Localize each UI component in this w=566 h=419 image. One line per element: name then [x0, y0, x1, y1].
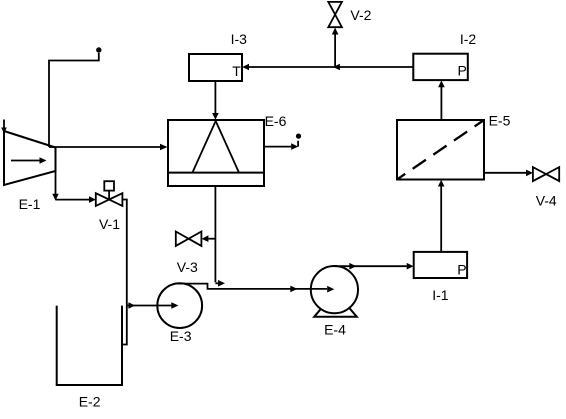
- svg-text:I-2: I-2: [460, 31, 477, 47]
- svg-text:V-1: V-1: [99, 216, 120, 232]
- E-1 inlet arrow: [3, 120, 5, 130]
- wire I-2 to I-3: [249, 66, 413, 68]
- svg-text:T: T: [232, 63, 241, 79]
- compressor E-1: [4, 131, 56, 185]
- membrane unit E-5: [397, 120, 484, 180]
- vent terminal dot: [296, 134, 301, 139]
- wire E-1 outlet to E-6: [49, 146, 161, 148]
- wire E-1 to V-1: [55, 171, 57, 199]
- instrument I-1: [414, 252, 467, 278]
- wire tank branch to pump E-3: [127, 305, 172, 307]
- svg-text:E-5: E-5: [489, 113, 511, 129]
- wire E-6 drop line through V-3 junction: [214, 186, 216, 282]
- wire E-6 vent to atmosphere: [264, 146, 291, 148]
- vent terminal dot: [96, 47, 101, 52]
- E-1 internal flow arrow: [11, 160, 40, 162]
- svg-text:V-3: V-3: [177, 259, 198, 275]
- wire I-1 to E-5: [440, 186, 442, 252]
- tank E-2: [57, 306, 122, 385]
- wire E-3 to E-4: [178, 284, 327, 289]
- instrument I-3: [189, 54, 242, 81]
- svg-text:V-4: V-4: [536, 192, 557, 208]
- svg-text:E-4: E-4: [324, 321, 346, 337]
- wire I-3 to E-6: [214, 81, 216, 114]
- instrument I-2: [413, 54, 468, 80]
- svg-text:P: P: [457, 63, 466, 79]
- valve V-3: [176, 232, 189, 246]
- svg-text:V-2: V-2: [350, 7, 371, 23]
- wire E-5 to V-4: [484, 172, 526, 174]
- valve V-1: [96, 193, 109, 206]
- wire junction to V-2: [334, 34, 336, 67]
- valve V-4: [533, 167, 546, 181]
- wire E-4 to I-1: [334, 265, 406, 267]
- svg-text:E-2: E-2: [79, 394, 101, 410]
- svg-text:E-1: E-1: [19, 196, 41, 212]
- svg-text:P: P: [457, 262, 466, 278]
- svg-text:I-1: I-1: [432, 287, 449, 303]
- wire V-1 to tank E-2: [122, 200, 126, 345]
- svg-text:E-6: E-6: [265, 113, 287, 129]
- column E-6: [168, 120, 264, 186]
- valve V-2: [328, 2, 342, 15]
- svg-text:I-3: I-3: [231, 31, 248, 47]
- svg-text:E-3: E-3: [170, 328, 192, 344]
- wire vent line to atmosphere: [49, 53, 99, 147]
- wire E-5 to I-2: [440, 87, 442, 120]
- pump E-4: [314, 307, 357, 317]
- pump E-3: [157, 283, 202, 328]
